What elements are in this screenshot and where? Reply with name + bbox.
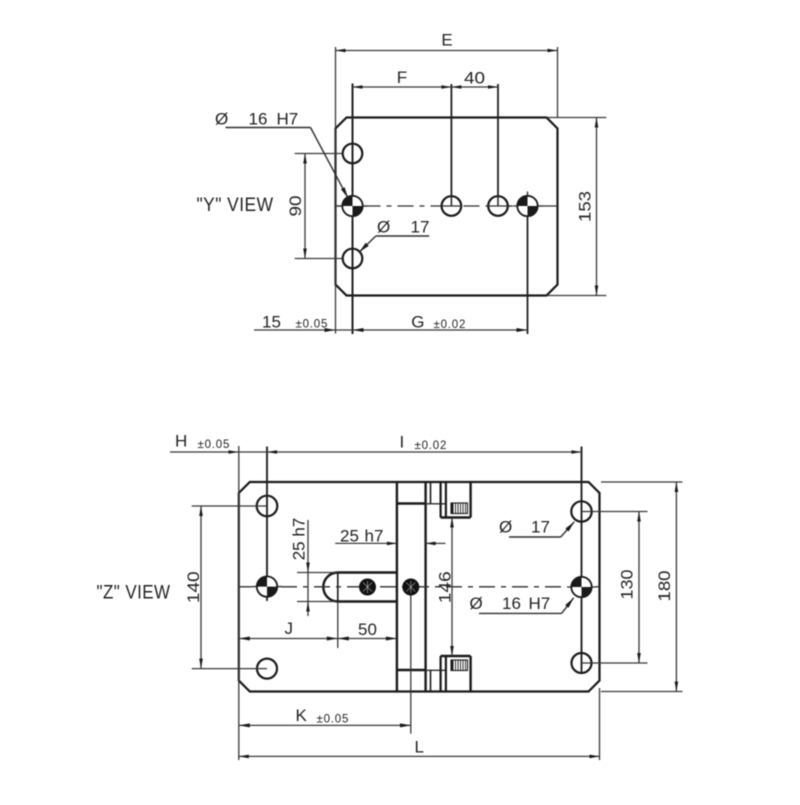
dimension G line xyxy=(353,329,528,331)
right edge extension bottom xyxy=(599,688,601,760)
J/50 extension x=337.8 xyxy=(337,602,339,649)
hole bottom-left open xyxy=(343,249,363,269)
svg-text:±0.02: ±0.02 xyxy=(415,440,448,452)
dimension L line xyxy=(239,755,600,757)
dimension 90 line xyxy=(304,154,306,259)
svg-text:E: E xyxy=(441,31,452,50)
extension line 153 bottom xyxy=(548,295,606,297)
dimension 40 line xyxy=(451,86,498,88)
svg-text:146: 146 xyxy=(436,571,455,603)
extension 180 top xyxy=(601,481,683,483)
svg-text:Ø: Ø xyxy=(470,594,483,613)
extension 25h7v top xyxy=(297,572,336,574)
dimension 50 line xyxy=(338,638,397,640)
svg-text:50: 50 xyxy=(358,620,377,639)
extension line hole x=451.4 xyxy=(450,84,452,206)
K extension from ball 2 xyxy=(410,596,412,734)
extension 25h7v bottom xyxy=(297,601,336,603)
dimension F line xyxy=(353,86,452,88)
datum hole left (352.5,206) xyxy=(338,192,367,221)
svg-text:16: 16 xyxy=(502,594,521,613)
dimension 146 line xyxy=(451,518,453,657)
ball pin 1 xyxy=(359,579,376,596)
dimension 180 line xyxy=(675,482,677,692)
block step bottom xyxy=(397,669,426,671)
svg-text:h7: h7 xyxy=(365,526,384,545)
slot xyxy=(323,573,397,602)
svg-text:130: 130 xyxy=(618,570,637,600)
hole bottom-right open xyxy=(572,653,592,673)
left edge extension full xyxy=(238,446,240,760)
datum hole left bottom view xyxy=(253,572,282,601)
svg-text:±0.05: ±0.05 xyxy=(198,439,231,451)
dimension 130 line xyxy=(638,512,640,664)
top plate outline xyxy=(336,118,558,296)
clamp bottom xyxy=(441,656,471,692)
hole top-right open xyxy=(571,501,591,521)
dimension 153 line xyxy=(596,118,598,296)
extension line hole x=498 xyxy=(497,84,499,206)
datum hole right (527.5,206) xyxy=(513,192,542,221)
centerline top view xyxy=(336,205,343,207)
svg-text:±0.05: ±0.05 xyxy=(317,714,350,726)
svg-text:±0.02: ±0.02 xyxy=(434,319,467,331)
svg-text:25 h7: 25 h7 xyxy=(290,518,309,561)
svg-text:K: K xyxy=(296,706,308,725)
leader Ø16H7 bottom xyxy=(479,612,562,614)
hole middle open 2 xyxy=(488,196,508,216)
extension line datum x=527.5 down xyxy=(527,196,529,335)
ball pin 2 xyxy=(402,579,419,596)
block right edge xyxy=(424,482,426,692)
hole top-left open xyxy=(257,496,278,517)
datum hole right bottom view xyxy=(567,573,596,602)
dimension I line xyxy=(267,451,582,453)
dimension 25 h7 vertical xyxy=(307,520,309,616)
svg-text:H: H xyxy=(175,432,187,451)
dimension 140 line xyxy=(200,506,202,669)
clamp top xyxy=(441,482,471,518)
svg-text:16: 16 xyxy=(249,110,268,129)
hole column line x=352.5 xyxy=(352,84,354,335)
extension line right edge vertical (E dim) xyxy=(557,47,559,118)
extension 130 bottom xyxy=(592,662,648,664)
right column line xyxy=(581,447,583,664)
extension 130 top xyxy=(592,511,648,513)
svg-text:153: 153 xyxy=(576,191,595,222)
svg-text:L: L xyxy=(415,738,424,757)
leader Ø17 bottom xyxy=(509,536,561,538)
extension 180 bottom xyxy=(601,691,683,693)
svg-text:Ø: Ø xyxy=(499,518,512,537)
svg-text:J: J xyxy=(285,619,294,638)
svg-text:±0.05: ±0.05 xyxy=(296,319,329,331)
svg-text:40: 40 xyxy=(464,69,485,88)
svg-text:"Y" VIEW: "Y" VIEW xyxy=(197,195,274,216)
svg-text:25: 25 xyxy=(340,526,359,545)
svg-text:"Z" VIEW: "Z" VIEW xyxy=(97,583,171,604)
svg-text:Ø: Ø xyxy=(215,110,228,129)
dimension J line xyxy=(239,638,338,640)
left column line xyxy=(266,447,268,601)
dimension H line xyxy=(170,451,267,453)
hole top-left open xyxy=(343,144,363,164)
svg-text:15: 15 xyxy=(262,313,281,332)
svg-text:17: 17 xyxy=(411,218,430,237)
dimension 15 line xyxy=(254,329,353,331)
short line right of block bottom xyxy=(430,670,432,692)
extension line left edge vertical (E,15 dims) xyxy=(335,47,337,334)
extension 140 top xyxy=(192,505,258,507)
svg-text:I: I xyxy=(400,433,405,452)
extension line 153 top xyxy=(548,117,606,119)
extension line 90 bottom xyxy=(295,258,343,260)
svg-text:G: G xyxy=(411,313,424,332)
centerline bottom view xyxy=(239,586,253,588)
svg-text:140: 140 xyxy=(184,571,203,603)
svg-text:180: 180 xyxy=(655,571,674,602)
short line right of block top xyxy=(430,482,432,504)
svg-text:17: 17 xyxy=(531,518,550,537)
leader Ø17 xyxy=(376,235,429,237)
leader Ø16H7 xyxy=(226,127,311,129)
svg-text:Ø: Ø xyxy=(377,218,390,237)
extension line 90 top xyxy=(295,153,343,155)
extension 140 bottom xyxy=(192,668,258,670)
svg-text:H7: H7 xyxy=(277,110,299,129)
dimension K line xyxy=(239,724,411,726)
svg-text:H7: H7 xyxy=(529,594,551,613)
dimension E line xyxy=(336,50,558,52)
svg-text:90: 90 xyxy=(286,196,305,217)
hole bottom-left open xyxy=(257,659,277,679)
block left edge xyxy=(396,482,398,692)
block step top xyxy=(397,502,426,504)
hole middle open 1 xyxy=(442,196,462,216)
bottom plate outline xyxy=(239,482,600,692)
svg-text:F: F xyxy=(397,68,407,87)
